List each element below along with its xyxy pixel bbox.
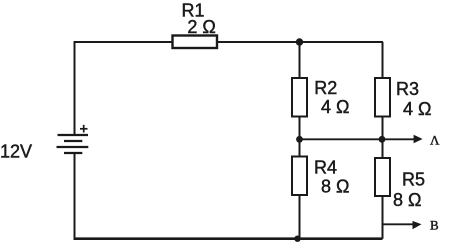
wire node rail to terminal A: [300, 138, 416, 140]
resistor R1: [173, 36, 218, 49]
resistor R3: [375, 78, 390, 117]
junction node top of branch 1: [296, 38, 303, 45]
resistor R4: [292, 157, 307, 196]
svg-text:2 Ω: 2 Ω: [187, 17, 215, 37]
svg-text:4 Ω: 4 Ω: [403, 99, 431, 119]
svg-text:12V: 12V: [0, 142, 32, 162]
svg-text:8 Ω: 8 Ω: [321, 177, 349, 197]
battery plus sign: [80, 125, 88, 133]
svg-text:8 Ω: 8 Ω: [393, 190, 421, 210]
svg-text:R3: R3: [396, 79, 419, 99]
wire left loop: battery top up, across top rail to right corner: [75, 42, 384, 135]
wire branch 1 vertical (through R2 and R4): [299, 42, 301, 239]
svg-text:R5: R5: [402, 170, 425, 190]
resistor R2: [292, 78, 307, 117]
svg-text:R4: R4: [314, 158, 337, 178]
svg-text:B: B: [430, 218, 439, 233]
wire left vertical lower from battery to bottom rail: [74, 153, 76, 240]
resistor R5: [375, 158, 390, 196]
svg-text:Λ: Λ: [430, 133, 440, 148]
battery V1 plates: [57, 135, 89, 153]
wire bottom rail: [74, 237, 383, 240]
junction node rail-A right: [379, 136, 386, 143]
arrowhead terminal B: [413, 221, 422, 229]
wire lead to terminal B: [383, 223, 415, 225]
svg-text:4 Ω: 4 Ω: [321, 97, 349, 117]
svg-text:R2: R2: [314, 78, 337, 98]
junction node bottom rail: [294, 236, 300, 242]
junction node rail-A left: [296, 136, 303, 143]
wire branch 2 vertical (through R3 and R5): [382, 42, 384, 239]
arrowhead terminal A: [414, 135, 423, 144]
